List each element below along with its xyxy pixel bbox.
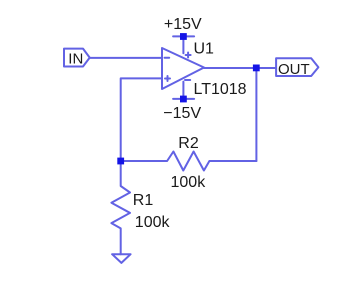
svg-text:U1: U1: [194, 40, 215, 57]
svg-text:R1: R1: [133, 192, 154, 209]
svg-text:R2: R2: [178, 135, 199, 152]
svg-text:OUT: OUT: [278, 61, 310, 78]
svg-text:100k: 100k: [135, 214, 171, 231]
svg-text:IN: IN: [68, 50, 83, 67]
svg-text:LT1018: LT1018: [194, 81, 247, 98]
svg-text:+15V: +15V: [164, 16, 202, 33]
svg-text:100k: 100k: [171, 174, 207, 191]
svg-text:−15V: −15V: [163, 105, 201, 122]
